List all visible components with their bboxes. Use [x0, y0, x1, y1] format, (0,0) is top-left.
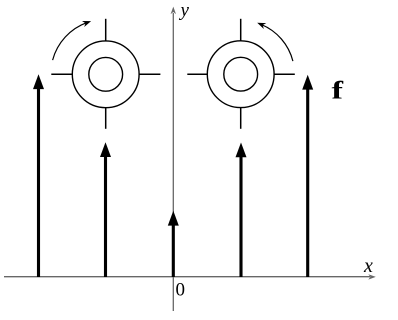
- right vortex inner circle: [224, 57, 258, 91]
- right vortex bottom tick: [240, 108, 242, 129]
- left vortex left tick: [51, 73, 72, 75]
- svg-text:f: f: [332, 78, 344, 105]
- x-axis: [4, 274, 376, 279]
- right vortex left tick: [187, 73, 207, 75]
- right rotation arrow (counter-clockwise): [257, 23, 293, 61]
- left rotation arrow (clockwise): [53, 21, 92, 60]
- left vortex right tick: [139, 73, 160, 75]
- left vortex inner circle: [89, 57, 123, 91]
- left vortex top tick: [105, 19, 107, 41]
- field arrow 4: [236, 143, 247, 278]
- svg-text:0: 0: [176, 280, 186, 301]
- svg-text:y: y: [179, 0, 190, 21]
- y-axis: [171, 7, 176, 311]
- right vortex right tick: [274, 73, 295, 75]
- field arrow 2: [100, 142, 111, 277]
- right vortex outer circle: [207, 41, 274, 108]
- field arrow 5: [302, 75, 313, 277]
- svg-text:x: x: [363, 255, 373, 277]
- left vortex outer circle: [72, 41, 139, 108]
- right vortex top tick: [240, 19, 242, 41]
- field arrow 3 (on y-axis): [168, 211, 179, 277]
- field arrow 1: [33, 74, 44, 277]
- left vortex bottom tick: [105, 108, 107, 129]
